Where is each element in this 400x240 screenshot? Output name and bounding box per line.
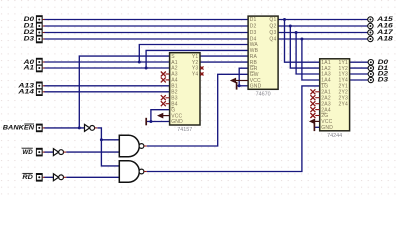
net label D2 right — [378, 72, 389, 78]
svg-text:A17: A17 — [376, 30, 394, 36]
junction A1/WB — [145, 67, 148, 70]
svg-text:A1: A1 — [22, 66, 35, 72]
svg-text:D2: D2 — [24, 30, 35, 36]
wire D3 bus to 74670 D4 — [44, 38, 248, 40]
no-connect 74157 pin y74 — [161, 72, 170, 77]
no-connect 74157 pin y104 — [161, 101, 170, 106]
svg-text:Y4: Y4 — [192, 72, 199, 78]
svg-text:WD: WD — [22, 150, 33, 156]
svg-text:BANKEN: BANKEN — [3, 126, 35, 132]
wire gate1 out to 74670 GW — [147, 74, 248, 146]
net label D1 left — [24, 24, 35, 30]
power arrow VCC 74670 — [230, 78, 248, 84]
svg-text:D0: D0 — [24, 17, 35, 23]
IC U2 74157 — [170, 53, 200, 134]
net label A1 — [22, 66, 35, 72]
wire 74670 GR loop — [239, 68, 248, 86]
connector J2 A0-A1 — [36, 58, 45, 73]
svg-text:74244: 74244 — [327, 133, 342, 139]
connector D3 out right — [368, 77, 373, 82]
no-connect 74244 pin y98 — [310, 95, 319, 100]
wire 74244 GND to ground — [314, 126, 319, 128]
svg-text:A15: A15 — [376, 17, 394, 23]
wire RD inverter out to gate2 — [66, 176, 119, 178]
wire Q4 to A18 — [278, 38, 368, 40]
wire Y2 to 74670 RB — [200, 61, 248, 63]
wire 74670 GND to ground — [237, 85, 249, 87]
net label BANKEN — [3, 124, 35, 132]
wire gate2 out to 74244 1G — [147, 86, 320, 172]
junction A0/WA — [138, 61, 141, 64]
wire branch to gate1 input — [101, 139, 119, 141]
wire A1 riser to 74670 WB — [146, 50, 248, 68]
no-connect 74244 pin y116 — [310, 113, 319, 118]
wire 1Y3 to D2 out — [350, 73, 369, 75]
wire D1 bus to 74670 D2 — [44, 25, 248, 27]
connector D2 out right — [368, 71, 373, 76]
inverter U4 BANKEN — [85, 124, 98, 131]
svg-text:RB: RB — [250, 60, 258, 66]
IC U3 74244 — [320, 59, 350, 139]
wire Q3 riser to 74244 1A3 — [296, 33, 320, 75]
connector J3 A13-A14 — [36, 82, 45, 97]
wire Q1 riser to 74244 1A1 — [285, 20, 320, 63]
svg-text:D1: D1 — [24, 24, 35, 30]
svg-text:Q1: Q1 — [269, 17, 276, 23]
svg-text:D2: D2 — [250, 24, 257, 30]
wire A13 to 74157 B1 — [44, 85, 169, 87]
junction BANKEN riser — [78, 126, 81, 129]
power arrow VCC 74244 — [309, 119, 320, 125]
junction inverter branch — [100, 138, 103, 141]
svg-text:D3: D3 — [24, 37, 35, 43]
wire WD to inverter — [44, 151, 53, 153]
ground symbol 74157 — [145, 118, 147, 126]
svg-text:D1: D1 — [250, 17, 257, 23]
power arrow VCC 74157 — [157, 113, 170, 119]
wire BANKEN to inverter — [44, 127, 84, 129]
svg-text:GW: GW — [250, 72, 259, 78]
net label A14 — [17, 90, 35, 96]
no-connect 74244 pin y110 — [310, 107, 319, 112]
connector A15 out — [368, 17, 373, 22]
svg-text:RD: RD — [22, 175, 33, 181]
wire Q2 riser to 74244 1A2 — [290, 26, 319, 68]
net label A16 — [376, 24, 394, 30]
wire BANKEN riser to 74157 S — [79, 56, 169, 128]
no-connect 74157 pin y98 — [161, 95, 170, 100]
wire A1 to 74157 A2 — [44, 67, 169, 69]
svg-text:GR: GR — [250, 66, 258, 72]
wire Q3 to A17 — [278, 32, 368, 34]
net label A15 — [376, 17, 394, 23]
junction Q2 — [289, 25, 292, 28]
junction GR/GND — [238, 84, 241, 87]
wire 1Y1 to D0 out — [350, 61, 369, 63]
wire 74157 GND to ground — [146, 121, 169, 123]
net label D2 left — [24, 30, 35, 36]
wire Y1 to 74670 RA — [200, 55, 248, 57]
connector J6 RD — [36, 173, 45, 182]
svg-text:GND: GND — [250, 84, 262, 90]
ground symbol 74670 — [236, 82, 238, 90]
wire 1Y4 to D3 out — [350, 79, 369, 81]
net label A17 — [376, 30, 394, 36]
net label D1 right — [378, 66, 389, 72]
IC U1 74670 — [248, 16, 278, 97]
connector J1 D0-D3 — [36, 15, 45, 43]
wire D0 bus to 74670 D1 — [44, 19, 248, 21]
connector D1 out right — [368, 65, 373, 70]
connector A18 out — [368, 36, 373, 41]
no-connect 74244 pin y92 — [310, 89, 319, 94]
connector A16 out — [368, 23, 373, 28]
svg-text:D3: D3 — [250, 30, 257, 36]
net label D3 right — [378, 78, 389, 84]
wire RD to inverter — [44, 176, 53, 178]
junction Q1 — [283, 18, 286, 21]
wire A14 to 74157 B2 — [44, 91, 169, 93]
junction Q4 — [300, 38, 303, 41]
NAND gate U7B read strobe — [119, 161, 147, 182]
svg-text:A14: A14 — [17, 90, 35, 96]
wire WD inverter out to gate1 — [66, 151, 119, 153]
wire 74157 G loop — [151, 110, 170, 122]
wire 1Y2 to D1 out — [350, 67, 369, 69]
wire Q1 to A15 — [278, 19, 368, 21]
no-connect 74244 pin y104 — [310, 101, 319, 106]
net label A0 — [22, 60, 35, 66]
wire inverter out to gates — [97, 128, 119, 166]
no-connect 74157 Y pin y68 — [200, 66, 203, 69]
svg-text:Q2: Q2 — [269, 24, 276, 30]
inverter U5 WD — [53, 149, 66, 156]
svg-text:2Y4: 2Y4 — [339, 101, 349, 107]
connector A17 out — [368, 30, 373, 35]
net label A18 — [376, 37, 394, 43]
wire Q2 to A16 — [278, 25, 368, 27]
inverter U6 RD — [53, 174, 66, 181]
svg-text:GND: GND — [171, 119, 183, 125]
wire A0 to 74157 A1 — [44, 61, 169, 63]
net label D0 right — [378, 60, 389, 66]
wire A0 riser to 74670 WA — [139, 45, 248, 63]
connector J4 BANKEN — [36, 124, 45, 133]
connector J5 WD — [36, 148, 45, 157]
svg-text:A16: A16 — [376, 24, 394, 30]
no-connect 74157 pin y80 — [161, 77, 170, 82]
svg-text:A18: A18 — [376, 37, 394, 43]
svg-text:74157: 74157 — [177, 127, 192, 133]
net label A13 — [17, 84, 35, 90]
net label RD — [22, 173, 33, 181]
junction G/GND — [149, 120, 152, 123]
ground symbol 74244 — [313, 124, 315, 132]
net label D3 left — [24, 37, 35, 43]
net label WD — [22, 148, 34, 156]
wire Q4 riser to 74244 1A4 — [302, 39, 320, 80]
junction Q3 — [295, 31, 298, 34]
connector D0 out right — [368, 60, 373, 65]
svg-text:GND: GND — [321, 125, 333, 131]
svg-text:D3: D3 — [378, 78, 389, 84]
NAND gate U7A write strobe — [119, 135, 147, 156]
svg-text:74670: 74670 — [256, 91, 271, 97]
svg-text:Q3: Q3 — [269, 30, 276, 36]
no-connect 74157 Y pin y74 — [200, 72, 203, 75]
wire D2 bus to 74670 D3 — [44, 32, 248, 34]
svg-text:Q4: Q4 — [269, 37, 276, 43]
net label D0 left — [24, 17, 35, 23]
